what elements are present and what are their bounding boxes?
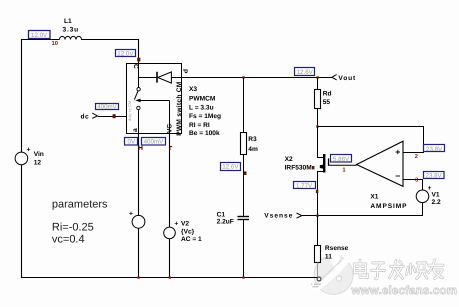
svg-text:12.0V: 12.0V <box>31 32 48 39</box>
svg-text:a: a <box>132 128 139 132</box>
terminal Vsense <box>297 213 302 218</box>
svg-text:L1: L1 <box>64 18 72 25</box>
wire Rsense to ground <box>317 263 319 279</box>
svg-text:12.6V: 12.6V <box>222 164 239 171</box>
svg-text:RI = RI: RI = RI <box>189 122 210 129</box>
wire top-left horizontal <box>21 39 60 41</box>
pin blob dc <box>113 114 116 118</box>
measure box 12.0V input <box>29 31 51 39</box>
source V bottom left <box>132 215 145 228</box>
svg-text:Fs = 1Meg: Fs = 1Meg <box>189 113 221 120</box>
wire dc input <box>98 116 127 118</box>
node junction vsense <box>316 214 318 216</box>
wire source to rail <box>138 228 140 278</box>
measure box 23.8V top <box>424 145 445 153</box>
resistor Rsense <box>315 246 321 263</box>
wire diode cathode to P <box>171 77 182 79</box>
svg-text:23.8V: 23.8V <box>426 146 443 153</box>
wire R3 branch <box>243 78 245 134</box>
node junction Vout <box>316 76 318 78</box>
switch contact circle bottom <box>137 106 140 109</box>
svg-text:1: 1 <box>342 168 346 174</box>
svg-text:vc=0.4: vc=0.4 <box>52 233 85 245</box>
svg-text:+: + <box>129 211 133 218</box>
svg-text:10: 10 <box>52 40 58 47</box>
wire control horizontal <box>140 100 170 102</box>
svg-text:R3: R3 <box>248 136 257 143</box>
wire VC branch down <box>169 134 171 228</box>
svg-text:12.6V: 12.6V <box>297 69 314 76</box>
wire L1 to corner <box>81 40 139 64</box>
wire switch node vertical <box>138 64 140 88</box>
wire P to Vout <box>182 77 333 79</box>
node junction R3 top <box>242 76 244 78</box>
svg-text:PWMCM: PWMCM <box>189 96 216 103</box>
pin blob block top <box>137 58 140 62</box>
transistor X2 body arrow <box>320 165 323 169</box>
dc terminal arrow <box>92 113 97 118</box>
wire opamp minus input <box>403 180 423 191</box>
svg-text:IRF530M: IRF530M <box>285 165 313 172</box>
wire Vin to ground rail <box>21 165 23 278</box>
pin blob mosfet gate left <box>312 166 314 169</box>
svg-text:400mV: 400mV <box>97 104 117 111</box>
watermark chinese text <box>355 260 444 279</box>
plus input sign <box>396 150 400 154</box>
svg-text:+: + <box>174 220 178 227</box>
wire vsense to Rsense <box>317 216 319 246</box>
switch arm <box>134 91 138 100</box>
svg-text:12.0V: 12.0V <box>117 50 134 57</box>
svg-text:Vin: Vin <box>34 151 44 158</box>
mosfet source stub <box>318 172 324 216</box>
svg-text:Rsense: Rsense <box>325 245 349 252</box>
svg-text:11: 11 <box>325 254 332 261</box>
switch contact circle top <box>137 88 140 91</box>
svg-text:Vsense: Vsense <box>264 212 293 219</box>
wire diode anode <box>138 77 157 79</box>
svg-text:X2: X2 <box>285 156 293 163</box>
node junction divider <box>316 125 318 127</box>
wire VC pin vertical <box>169 101 171 134</box>
wire Vout node to Rd <box>317 78 319 90</box>
wire Rd to divider node <box>317 109 319 128</box>
svg-text:400mV: 400mV <box>144 138 164 145</box>
svg-text:4m: 4m <box>248 146 258 153</box>
wire left vertical to Vin <box>21 39 23 152</box>
measure box 400mV vc <box>142 138 166 146</box>
svg-text:parameters: parameters <box>52 199 108 211</box>
svg-text:AMPSIMP: AMPSIMP <box>370 203 407 210</box>
svg-text:duty-cy CM: duty-cy CM <box>127 101 132 121</box>
transistor X2 gate bar <box>328 158 329 165</box>
svg-text:Vout: Vout <box>338 75 356 82</box>
ground node bubble <box>317 277 321 281</box>
measure box 400mV dc <box>96 104 119 111</box>
wire divider to opamp plus <box>318 127 424 153</box>
rail junction dots <box>137 276 139 278</box>
PWM switch block X3 outline <box>127 64 182 134</box>
svg-text:C: C <box>132 64 139 69</box>
svg-text:C1: C1 <box>217 211 226 218</box>
op-amp X1 <box>357 141 404 186</box>
svg-text:Rd: Rd <box>323 90 332 97</box>
watermark logo <box>311 251 353 295</box>
svg-text:3.3u: 3.3u <box>63 27 79 34</box>
svg-text:12: 12 <box>34 159 42 166</box>
svg-text:Ri=-0.25: Ri=-0.25 <box>52 222 94 234</box>
wire bottom ground rail <box>21 277 318 279</box>
minus input sign <box>396 175 400 177</box>
svg-text:1.77V: 1.77V <box>296 183 313 190</box>
pin blob R3 bottom <box>244 171 247 175</box>
svg-text:55: 55 <box>323 99 331 106</box>
svg-text:Be = 100k: Be = 100k <box>189 130 220 137</box>
svg-text:2: 2 <box>415 153 418 160</box>
wire V1 to vsense rail <box>302 203 423 216</box>
measure box 5.86V <box>331 155 352 163</box>
measure box 0V <box>125 138 138 146</box>
svg-text:0V: 0V <box>128 138 136 145</box>
measure box 1.77V <box>294 182 316 190</box>
svg-text:AC = 1: AC = 1 <box>181 236 202 243</box>
measure box 12.6V vout <box>295 68 315 77</box>
wire gate to opamp output <box>329 164 357 166</box>
switch control arrow <box>135 99 140 103</box>
svg-text:www.elecfans.com: www.elecfans.com <box>351 285 458 297</box>
source V1 <box>416 190 429 203</box>
wire C1 to rail <box>243 220 245 278</box>
wire V2 to rail <box>169 239 171 278</box>
source V2 <box>164 227 176 239</box>
source Vin <box>15 152 28 165</box>
svg-text:+: + <box>27 146 31 153</box>
pin blob under a <box>139 146 142 150</box>
svg-text:P: P <box>181 69 188 74</box>
wire divider to mosfet drain <box>318 127 324 158</box>
pin blob mosfet source <box>316 190 318 193</box>
svg-text:2.2uF: 2.2uF <box>217 218 234 225</box>
wire a pin vertical <box>138 110 140 134</box>
pin blob under VC <box>170 146 172 150</box>
measure box 12.0V node C <box>116 50 136 58</box>
capacitor C1 <box>238 216 250 218</box>
measure box 12.6V left <box>221 163 241 171</box>
svg-text:dc: dc <box>81 113 90 120</box>
resistor R3 <box>241 133 247 155</box>
svg-text:L = 3.3u: L = 3.3u <box>189 104 214 111</box>
svg-text:5.86V: 5.86V <box>333 156 350 163</box>
diode D inside block <box>156 72 158 83</box>
svg-text:V2: V2 <box>181 221 189 228</box>
measure box 23.8V bottom <box>424 172 445 180</box>
transistor X2 channel bar <box>323 154 325 173</box>
svg-text:X3: X3 <box>189 86 197 93</box>
resistor Rd <box>315 90 321 109</box>
svg-text:X1: X1 <box>370 194 378 201</box>
svg-text:{Vc}: {Vc} <box>181 228 195 235</box>
inductor L1 <box>60 36 82 39</box>
svg-text:PWM switch CM: PWM switch CM <box>176 81 183 136</box>
terminal Vout <box>332 75 337 80</box>
wire a branch down <box>138 134 140 216</box>
wire R3 to C1 <box>243 155 245 217</box>
svg-text:V1: V1 <box>432 191 440 198</box>
svg-text:2.2: 2.2 <box>432 199 441 206</box>
svg-text:23.8V: 23.8V <box>426 173 443 180</box>
